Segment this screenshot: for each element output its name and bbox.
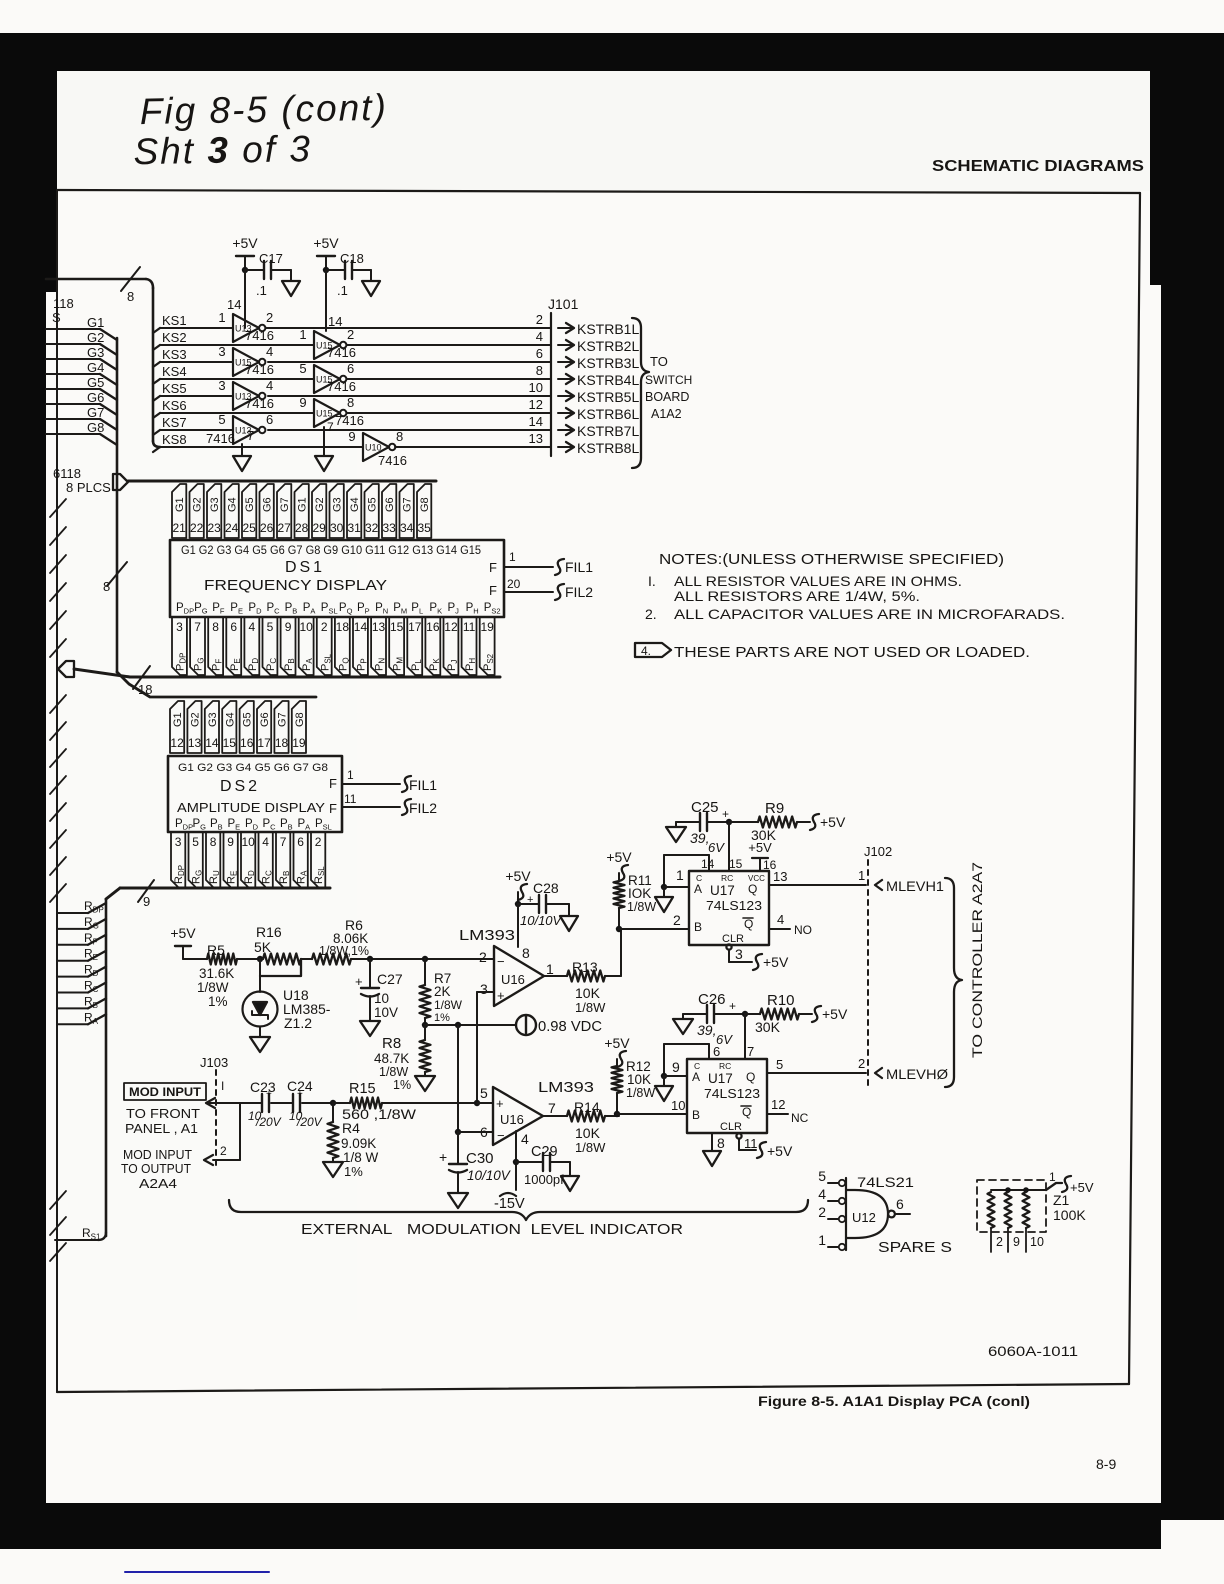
capacitor C27 10/10V	[355, 956, 403, 1020]
brace to switch board	[632, 318, 649, 468]
node KSTRB3L	[558, 355, 639, 371]
svg-text:Q: Q	[748, 882, 757, 896]
svg-text:+5V: +5V	[820, 814, 846, 830]
svg-text:7416: 7416	[327, 345, 356, 360]
svg-text:8: 8	[212, 620, 219, 634]
svg-text:2: 2	[536, 312, 543, 327]
svg-text:J101: J101	[548, 296, 579, 312]
svg-text:8-9: 8-9	[1096, 1456, 1116, 1472]
svg-text:G2: G2	[314, 497, 326, 512]
svg-text:G6: G6	[87, 390, 104, 405]
svg-text:1: 1	[347, 768, 354, 782]
svg-text:R9: R9	[765, 800, 784, 817]
node DS1 output flag PS2 pin 19	[480, 617, 495, 675]
svg-text:14: 14	[354, 620, 368, 634]
power +5V (C17)	[232, 235, 258, 270]
svg-text:7: 7	[548, 1100, 556, 1116]
wire J103 pin 1 mod input	[206, 1079, 262, 1108]
node DS1 input flag G4 pin 31	[347, 484, 361, 538]
svg-text:2: 2	[858, 1056, 865, 1071]
svg-text:11: 11	[744, 1136, 758, 1151]
node KSTRB1L	[558, 321, 639, 337]
node DS1 output flag PH pin 11	[462, 617, 477, 675]
svg-text:2: 2	[315, 835, 322, 849]
svg-text:14: 14	[205, 736, 219, 750]
svg-text:2: 2	[347, 327, 354, 342]
svg-text:6V: 6V	[708, 840, 725, 855]
svg-text:U17: U17	[710, 883, 735, 898]
svg-text:13: 13	[529, 431, 543, 446]
svg-text:3: 3	[218, 344, 225, 359]
svg-text:10K: 10K	[575, 1125, 601, 1141]
svg-text:12: 12	[529, 397, 543, 412]
resistor R9 30K	[726, 800, 810, 843]
svg-text:U15: U15	[316, 409, 333, 419]
svg-text:2K: 2K	[434, 984, 451, 999]
svg-text:1: 1	[858, 868, 865, 883]
svg-text:PN: PN	[374, 658, 387, 671]
node DS1 output flag PSL pin 2	[317, 617, 332, 675]
svg-text:/20V: /20V	[255, 1115, 282, 1129]
svg-text:KSTRB1L: KSTRB1L	[577, 321, 639, 337]
svg-text:7: 7	[280, 835, 287, 849]
svg-text:9: 9	[285, 620, 292, 634]
svg-text:4: 4	[262, 835, 269, 849]
wire KSTRB1L to J101	[266, 312, 552, 328]
ground (U13 pin 7)	[233, 428, 254, 471]
resistor R14 10K 1/8W	[543, 1099, 619, 1155]
svg-text:6: 6	[230, 620, 237, 634]
svg-text:PM: PM	[393, 602, 407, 616]
svg-text:+: +	[439, 1149, 447, 1165]
ground (C26)	[673, 1019, 693, 1034]
node DS2 output flag RDP pin 3	[171, 832, 186, 888]
wire +5V to U15 pin 14	[326, 270, 342, 331]
node DS2 output flag RE pin 9	[224, 832, 239, 888]
svg-text:C18: C18	[340, 251, 364, 266]
svg-text:10K: 10K	[627, 1072, 651, 1087]
node DS1 output flag PC pin 5	[263, 617, 278, 675]
svg-text:KS8: KS8	[162, 432, 187, 447]
svg-text:U16: U16	[500, 1112, 524, 1127]
svg-text:1/8W,1%: 1/8W,1%	[319, 944, 369, 958]
svg-text:9: 9	[227, 835, 234, 849]
wire R13 to U17a pin B	[620, 929, 622, 976]
svg-text:30K: 30K	[755, 1019, 781, 1035]
svg-text:FREQUENCY DISPLAY: FREQUENCY DISPLAY	[204, 578, 387, 594]
svg-text:20: 20	[507, 577, 521, 591]
node DS2 input flag G7 pin 18	[274, 701, 288, 753]
wire U16b pin 4 to -15V	[494, 1131, 525, 1212]
svg-text:+5V: +5V	[232, 235, 258, 251]
bus DS1 P lines (18)	[74, 669, 500, 677]
wire C26 node to pin 7	[745, 1014, 754, 1059]
svg-text:2: 2	[266, 310, 273, 325]
svg-text:35: 35	[417, 521, 431, 535]
svg-text:1: 1	[218, 310, 225, 325]
svg-text:15: 15	[223, 736, 237, 750]
svg-text:G3: G3	[87, 345, 104, 360]
wire G6 (left)	[46, 390, 117, 415]
wire RA (left)	[57, 1010, 106, 1026]
capacitor C18 .1	[323, 251, 380, 298]
brace to controller	[945, 878, 962, 1087]
node DS1 input flag G3 pin 23	[207, 484, 221, 538]
node DS1 output flag PK pin 16	[425, 617, 440, 675]
node DS1 output flag PE pin 6	[226, 617, 241, 675]
svg-text:R13: R13	[572, 959, 598, 975]
wire node B1	[616, 912, 689, 932]
resistor R15 560 1/8W	[330, 1081, 477, 1122]
inverter gate U15 7416 (KS2)	[299, 327, 356, 360]
svg-text:EXTERNAL MODULATION LEVEL I: EXTERNAL MODULATION LEVEL INDICATOR	[301, 1222, 683, 1238]
svg-text:SWITCH: SWITCH	[645, 373, 692, 387]
wire RE (left)	[57, 947, 106, 963]
svg-text:G5: G5	[367, 497, 379, 512]
wire RD (left)	[57, 963, 106, 979]
bus slash /8	[103, 562, 127, 594]
wire KSTRB3L to J101	[268, 346, 551, 362]
svg-text:9: 9	[299, 395, 306, 410]
svg-text:118: 118	[53, 296, 74, 311]
svg-text:KS7: KS7	[162, 415, 187, 430]
svg-text:LM393: LM393	[538, 1079, 594, 1096]
svg-text:C17: C17	[259, 251, 283, 266]
wire RDP (left)	[57, 899, 106, 915]
wire KS3	[153, 347, 233, 367]
handwritten note "Fig 8-5 (cont)"	[132, 87, 388, 172]
svg-text:KS5: KS5	[162, 381, 187, 396]
svg-text:23: 23	[207, 521, 221, 535]
svg-text:J102: J102	[864, 844, 892, 859]
resistor R12 10K 1/8W	[612, 1059, 656, 1114]
svg-text:10: 10	[529, 380, 543, 395]
svg-text:26: 26	[260, 521, 274, 535]
svg-text:R15: R15	[349, 1081, 376, 1097]
svg-text:MLEVHØ: MLEVHØ	[886, 1066, 948, 1082]
svg-text:RC: RC	[719, 1061, 731, 1071]
svg-text:1%: 1%	[208, 994, 228, 1009]
svg-text:PL: PL	[410, 659, 423, 671]
svg-text:+5V: +5V	[170, 925, 196, 941]
svg-text:PM: PM	[392, 657, 405, 671]
svg-text:10V: 10V	[374, 1005, 398, 1020]
node DS1 input flag G5 pin 32	[365, 484, 379, 538]
svg-text:F: F	[329, 801, 337, 816]
ground (U17b pin 8)	[703, 1133, 725, 1166]
svg-text:7416: 7416	[245, 328, 274, 343]
svg-text:33: 33	[382, 521, 396, 535]
svg-text:+5V: +5V	[313, 235, 339, 251]
svg-text:+5V: +5V	[822, 1006, 848, 1022]
label DS1 P pins row	[176, 602, 501, 616]
svg-text:B: B	[692, 1108, 700, 1122]
svg-text:10: 10	[241, 835, 255, 849]
inverter gate U10 7416 (KS8)	[348, 429, 407, 468]
svg-text:TO CONTROLLER A2A7: TO CONTROLLER A2A7	[970, 862, 985, 1058]
svg-text:7416: 7416	[245, 362, 274, 377]
svg-text:KSTRB4L: KSTRB4L	[577, 372, 639, 388]
svg-text:1/8W: 1/8W	[434, 998, 463, 1012]
svg-text:NO: NO	[794, 923, 812, 937]
svg-text:KS3: KS3	[162, 347, 187, 362]
svg-text:G2: G2	[190, 712, 202, 727]
svg-text:DS2: DS2	[220, 778, 260, 795]
svg-text:4.: 4.	[641, 644, 651, 658]
node DS2 input flag G2 pin 13	[187, 701, 201, 753]
svg-text:U17: U17	[708, 1071, 733, 1086]
svg-text:10K: 10K	[575, 985, 601, 1001]
capacitor C24 10/20V	[287, 1078, 333, 1129]
bus DS2 G feed	[117, 672, 316, 697]
svg-text:ALL RESISTORS ARE 1/4W, 5%.: ALL RESISTORS ARE 1/4W, 5%.	[674, 588, 920, 604]
svg-text:4: 4	[777, 912, 784, 927]
svg-text:6: 6	[896, 1196, 904, 1212]
wire U17a pin 4 NO	[769, 912, 812, 937]
svg-text:PK: PK	[428, 658, 441, 671]
svg-text:G3: G3	[207, 712, 219, 727]
power +5V (C18)	[313, 235, 339, 270]
svg-text:31.6K: 31.6K	[199, 966, 234, 981]
svg-text:+5V: +5V	[1070, 1180, 1094, 1195]
svg-text:KSTRB2L: KSTRB2L	[577, 338, 639, 354]
node DS1 output flag PD pin 4	[244, 617, 259, 675]
svg-text:74LS123: 74LS123	[706, 898, 762, 913]
wire U16a pin 3 from mod line	[477, 992, 494, 1100]
bus R vertical	[105, 899, 108, 1236]
svg-text:12: 12	[444, 620, 458, 634]
node DS1 input flag G7 pin 27	[277, 484, 291, 538]
capacitor C30 10/10V	[439, 1132, 512, 1193]
wire RC (left)	[57, 979, 106, 995]
svg-text:KSTRB5L: KSTRB5L	[577, 389, 639, 405]
svg-text:4: 4	[536, 329, 543, 344]
node DS2 input flag G8 pin 19	[292, 701, 306, 753]
node DS1 output flag PN pin 13	[371, 617, 386, 675]
svg-text:5: 5	[192, 835, 199, 849]
node +5V (R9)	[810, 814, 846, 830]
svg-text:1/8W: 1/8W	[197, 980, 229, 995]
svg-text:8: 8	[536, 363, 543, 378]
svg-text:PK: PK	[429, 602, 442, 616]
svg-text:R8: R8	[382, 1035, 401, 1052]
svg-text:NOTES:(UNLESS OTHERWISE SPECIF: NOTES:(UNLESS OTHERWISE SPECIFIED)	[659, 551, 1004, 568]
svg-text:I: I	[221, 1079, 224, 1093]
svg-text:15: 15	[729, 857, 743, 871]
node DS2 output flag RSL pin 2	[311, 832, 326, 888]
svg-text:10: 10	[1030, 1235, 1044, 1249]
svg-text:1: 1	[1049, 1170, 1056, 1184]
svg-text:-15V: -15V	[494, 1196, 525, 1212]
wire G8 (left)	[46, 420, 117, 445]
svg-text:KSTRB8L: KSTRB8L	[577, 440, 639, 456]
wire KSTRB4L to J101	[347, 363, 552, 379]
svg-text:14: 14	[701, 857, 715, 871]
resistor R6 8.06K 1/8W 1%	[312, 917, 494, 965]
svg-text:8: 8	[347, 395, 354, 410]
svg-text:10/10V: 10/10V	[467, 1168, 512, 1183]
label MOD INPUT TO OUTPUT A2A4	[121, 1148, 192, 1191]
svg-text:7416: 7416	[335, 413, 364, 428]
inverter gate U15 7416 (KS4)	[299, 361, 356, 394]
capacitor C25 39/6V	[676, 799, 729, 855]
display DS2 AMPLITUDE DISPLAY	[168, 756, 342, 832]
svg-text:28: 28	[295, 521, 309, 535]
bus DS2 R lines (9)	[106, 888, 330, 899]
svg-text:PL: PL	[411, 602, 423, 616]
bus slash /18	[133, 666, 152, 697]
svg-text:+: +	[729, 999, 736, 1013]
svg-text:8: 8	[127, 289, 134, 304]
node DS2 input flag G4 pin 15	[222, 701, 236, 753]
node DS1 input flag G6 pin 33	[382, 484, 396, 538]
svg-text:3: 3	[218, 378, 225, 393]
svg-text:C23: C23	[250, 1079, 276, 1095]
svg-text:C30: C30	[466, 1150, 494, 1167]
svg-text:100K: 100K	[1053, 1207, 1086, 1223]
svg-text:25: 25	[242, 521, 256, 535]
svg-text:TO OUTPUT: TO OUTPUT	[121, 1162, 191, 1176]
svg-text:KS4: KS4	[162, 364, 187, 379]
svg-text:G6: G6	[384, 497, 396, 512]
capacitor C17 .1	[242, 251, 300, 298]
svg-text:A1A2: A1A2	[651, 407, 682, 421]
svg-text:18: 18	[275, 736, 289, 750]
svg-text:SPARE S: SPARE S	[878, 1240, 952, 1256]
svg-text:RC: RC	[721, 873, 733, 883]
svg-text:1/8 W: 1/8 W	[343, 1150, 379, 1165]
svg-text:3: 3	[175, 835, 182, 849]
label DS2 P pins row	[175, 818, 332, 832]
svg-text:29: 29	[312, 521, 326, 535]
svg-text:5: 5	[480, 1085, 488, 1101]
svg-text:A: A	[692, 1070, 700, 1084]
svg-text:6: 6	[536, 346, 543, 361]
svg-text:R16: R16	[256, 924, 282, 940]
svg-text:PP: PP	[357, 602, 370, 616]
svg-text:A: A	[694, 882, 702, 896]
svg-text:FIL2: FIL2	[565, 584, 593, 600]
svg-text:CLR: CLR	[722, 933, 744, 945]
svg-text:16: 16	[426, 620, 440, 634]
svg-text:7: 7	[327, 420, 334, 434]
svg-text:39,: 39,	[690, 830, 709, 846]
svg-text:7: 7	[247, 428, 254, 443]
wire G3 (left)	[46, 345, 117, 370]
svg-text:9: 9	[348, 429, 355, 444]
connector J103	[200, 1055, 228, 1165]
svg-text:9.09K: 9.09K	[341, 1136, 376, 1151]
svg-text:F: F	[489, 560, 497, 575]
wire KS6	[153, 398, 314, 418]
svg-text:8: 8	[717, 1135, 725, 1151]
svg-text:+5V: +5V	[767, 1143, 793, 1159]
label 6118 8 PLCS	[53, 466, 111, 495]
svg-text:G4: G4	[224, 712, 236, 727]
wire KS4	[153, 364, 314, 384]
svg-text:+5V: +5V	[604, 1035, 630, 1051]
node DS1 input flag G1 pin 28	[295, 484, 309, 538]
svg-text:3: 3	[480, 981, 488, 997]
node KSTRB8L	[558, 440, 639, 456]
display DS1 FREQUENCY DISPLAY	[170, 540, 504, 617]
wire U16b pin 5 node	[474, 1100, 493, 1106]
svg-text:5: 5	[776, 1057, 783, 1072]
svg-text:C25: C25	[691, 799, 719, 816]
svg-text:13: 13	[372, 620, 386, 634]
svg-text:NC: NC	[791, 1111, 809, 1125]
svg-text:G1 G2 G3 G4 G5 G6 G7 G8 G9 G10: G1 G2 G3 G4 G5 G6 G7 G8 G9 G10 G11 G12 G…	[181, 545, 481, 557]
label MOD INPUT TO FRONT PANEL A1	[124, 1083, 206, 1136]
svg-text:BOARD: BOARD	[645, 390, 689, 404]
svg-text:Figure 8-5. A1A1 Display PCA (: Figure 8-5. A1A1 Display PCA (conl)	[758, 1394, 1030, 1409]
svg-text:G2: G2	[87, 330, 104, 345]
node FIL1 (DS1 pin 1)	[504, 550, 593, 575]
svg-text:G1 G2 G3 G4 G5 G6 G7 G8: G1 G2 G3 G4 G5 G6 G7 G8	[178, 762, 328, 774]
svg-text:+5V: +5V	[748, 840, 772, 855]
svg-text:MOD INPUT: MOD INPUT	[129, 1087, 201, 1099]
wire +5V to U13 pin 14	[227, 270, 245, 328]
svg-text:2: 2	[220, 1144, 227, 1158]
power +5V (R12)	[604, 1035, 630, 1067]
svg-text:G1: G1	[172, 712, 184, 727]
ground (C25)	[666, 827, 686, 842]
svg-text:G5: G5	[87, 375, 104, 390]
gate U12 74LS21 spare	[818, 1168, 914, 1250]
resistor R11 10K 1/8W	[614, 873, 657, 929]
svg-text:48.7K: 48.7K	[374, 1051, 409, 1066]
wire RG (left)	[57, 915, 106, 931]
svg-text:LM393: LM393	[459, 927, 515, 944]
node DS2 input flag G1 pin 12	[170, 701, 184, 753]
svg-text:G1: G1	[174, 497, 186, 512]
svg-text:9: 9	[672, 1059, 680, 1075]
svg-text:6: 6	[266, 412, 273, 427]
svg-text:1: 1	[509, 550, 516, 564]
wire node B2	[614, 1098, 687, 1117]
svg-text:+: +	[497, 988, 505, 1003]
node KSTRB6L	[558, 406, 639, 422]
svg-text:TO FRONT: TO FRONT	[126, 1107, 200, 1121]
svg-text:14: 14	[529, 414, 543, 429]
power +5V (C28)	[505, 868, 531, 904]
node DS1 input flag G7 pin 34	[400, 484, 414, 538]
node FIL2 (DS2 pin 11)	[342, 792, 437, 816]
svg-text:THESE PARTS ARE NOT USED OR LO: THESE PARTS ARE NOT USED OR LOADED.	[674, 645, 1030, 661]
svg-text:PH: PH	[464, 658, 477, 671]
svg-text:18: 18	[336, 620, 350, 634]
svg-text:4: 4	[266, 378, 273, 393]
capacitor C28 10/10V	[515, 880, 569, 928]
svg-text:14: 14	[328, 314, 342, 329]
wire KSTRB7L to J101	[268, 414, 551, 430]
node DS2 output flag RG pin 5	[189, 832, 204, 888]
svg-text:7416: 7416	[245, 396, 274, 411]
svg-text:5: 5	[267, 620, 274, 634]
svg-text:21: 21	[172, 521, 186, 535]
svg-text:+5V: +5V	[606, 849, 632, 865]
svg-text:G1: G1	[297, 497, 309, 512]
svg-text:4: 4	[818, 1186, 826, 1202]
op-amp U16a LM393	[459, 927, 554, 1006]
svg-text:14: 14	[227, 297, 241, 312]
svg-text:I.: I.	[648, 573, 656, 589]
svg-text:7416: 7416	[327, 379, 356, 394]
node DS2 output flag RC pin 4	[259, 832, 274, 888]
svg-text:−: −	[497, 1128, 505, 1143]
diode U18 LM385-Z1.2	[243, 959, 331, 1037]
cable edge (left harness)	[50, 499, 66, 1263]
